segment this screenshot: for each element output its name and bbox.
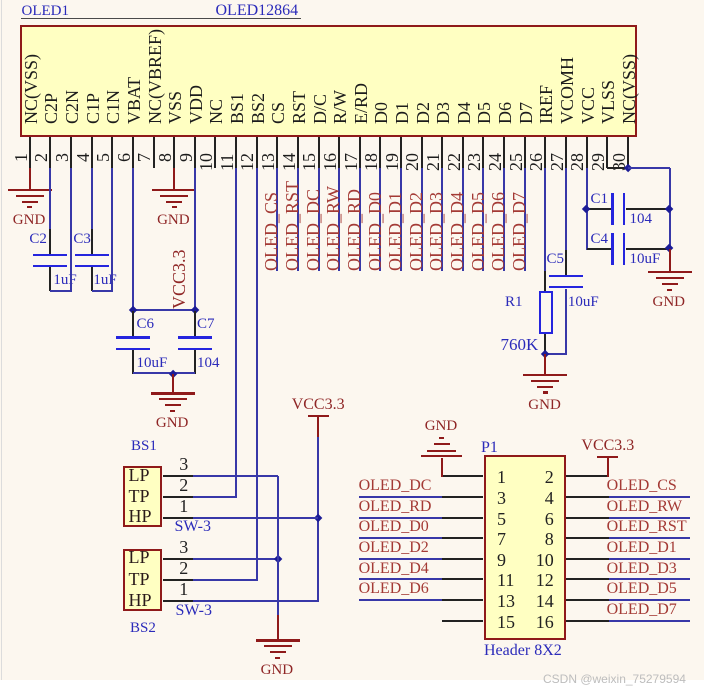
pin 23 name D5 [475,102,493,124]
wire pin6 to pin9 rail [133,309,195,311]
wire net OLED_RD [359,517,442,519]
pin 10 number [197,153,215,171]
pin 12 stub [256,137,258,168]
pin 5 name C1N [104,90,122,124]
P1 pin number 4 [528,491,554,505]
pin 14 number [280,153,298,171]
BS1 pin 1 lead [163,517,193,519]
capacitor C2 [49,229,51,254]
wire pin23 net stub [482,168,484,271]
P1 pin 1 lead [442,475,484,477]
pin 28 stub [586,137,588,168]
pin 13 name CS [269,102,287,124]
pin 11 name BS1 [228,93,246,124]
pin 1 stub [29,137,31,168]
pin 6 name VBAT [125,77,143,124]
pin 8 stub [173,137,175,168]
pin 30 name NC(VSS) [620,54,638,124]
P1 pin 6 lead [566,517,609,519]
wire net OLED_D5 [609,599,690,601]
wire pin1 to GND [29,168,31,190]
capacitor C6 [132,311,134,336]
pin 4 number [74,153,92,162]
net label OLED_D3 [427,192,445,271]
pin 3 number [53,153,71,162]
wire pin19 net stub [400,168,402,271]
P1 pin 5 lead [442,517,484,519]
pin 19 number [383,153,401,171]
pin 2 name C2P [42,93,60,124]
switch BS1 body [123,466,163,528]
P1 pin 14 lead [566,599,609,601]
wire P1 pin1 to GND [441,458,443,478]
wire net OLED_D3 [609,578,690,580]
P1 pin number 8 [528,532,554,546]
wire pin5 down [111,168,113,293]
pin 29 name VLSS [599,80,617,124]
resistor R1 [544,271,546,291]
capacitor C1 [587,208,612,210]
watermark [543,673,686,685]
pin 24 stub [503,137,505,168]
pin 16 number [321,153,339,171]
P1 pin number 13 [497,594,515,608]
part type OLED12864 [216,3,299,19]
P1 pin number 6 [528,512,554,526]
pin 11 stub [235,137,237,168]
net label OLED_CS [607,478,677,494]
net label OLED_DC [359,478,432,494]
P1 pin 15 lead [442,620,484,622]
pin 2 number [32,153,50,162]
pin 20 stub [421,137,423,168]
label C6 [137,317,155,332]
net label VCC3.3 (pin9) [170,249,188,309]
wire net OLED_D6 [359,599,442,601]
pin 18 stub [379,137,381,168]
pin 19 stub [400,137,402,168]
pin 4 name C1P [84,93,102,124]
pin 3 name C2N [63,90,81,124]
pin 3 stub [70,137,72,168]
pin 25 number [507,153,525,171]
junction C6/C7 ground [169,369,178,378]
net label OLED_D1 [607,540,677,556]
net label OLED_D3 [607,561,677,577]
pin label TP (BS1) [129,490,150,503]
pin 20 number [403,153,421,171]
wire BS1 pin1 to VCC rail [193,517,319,519]
P1 pin 10 lead [566,558,609,560]
wire pin22 net stub [462,168,464,271]
net label OLED_D6 [359,581,429,597]
right rail down [669,168,671,250]
pin 22 number [445,153,463,171]
junction pin6 rail [129,306,138,315]
net label OLED_D5 [469,192,487,271]
pin 27 number [548,153,566,171]
pin 10 name NC [207,99,225,124]
pin 8 name VSS [166,91,184,124]
pin 13 number [259,153,277,171]
net label OLED_D5 [607,581,677,597]
P1 pin number 7 [497,532,506,546]
pin 13 stub [276,137,278,168]
pin 6 stub [132,137,134,168]
net label OLED_D4 [448,192,466,271]
wire pin20 net stub [421,168,423,271]
P1 pin number 3 [497,491,506,505]
pin 12 number [238,153,256,171]
junction C1 right [665,205,674,214]
designator OLED1 [22,4,70,19]
net label OLED_RST [283,181,301,271]
P1 pin 7 lead [442,537,484,539]
pin 26 stub [544,137,546,168]
wire pin3 down [70,168,72,293]
ground GND (pin8) [152,189,196,191]
net label OLED_DC [304,189,322,271]
wire C4 right to GND [669,249,671,272]
P1 pin number 5 [497,512,506,526]
pin 29 number [589,153,607,171]
ground GND (C6/C7) [151,392,195,394]
BS2 pin number 1 [179,583,188,596]
pin label LP (BS1) [129,469,150,482]
pin 5 stub [111,137,113,168]
IC OLED1 body (OLED12864) [20,25,637,138]
pin 24 number [486,153,504,171]
designator underline [21,18,301,19]
pin 21 stub [441,137,443,168]
pin 30 stub [627,137,629,168]
pin 17 name E/RD [352,83,370,124]
net label OLED_RW [324,186,342,271]
pin label TP (BS2) [129,573,150,586]
pin 29 stub [606,137,608,168]
wire net OLED_DC [359,496,442,498]
P1 pin 4 lead [566,496,609,498]
wire net OLED_D7 [609,620,690,622]
pin 14 name RST [290,91,308,124]
wire pin17 net stub [359,168,361,271]
net label OLED_D0 [359,519,429,535]
P1 pin 3 lead [442,496,484,498]
pin 27 name VCOMH [558,57,576,124]
GND rail red stub [277,615,279,640]
ground GND (pin1) [8,189,52,191]
capacitor C3 [91,229,93,254]
label Header 8X2 [484,643,562,659]
ground GND (R1/C5) [523,374,567,376]
wire net OLED_D0 [359,537,442,539]
junction VCC/BS1 pin1 [314,513,323,522]
BS1 pin number 3 [179,458,188,471]
wire pin27 down [565,168,567,250]
P1 pin number 12 [528,573,554,587]
junction R1/C5 [541,350,550,359]
designator BS2 [130,621,156,636]
pin 28 name VCC [579,87,597,124]
value 104 (C7) [197,356,220,371]
pin 25 stub [524,137,526,168]
wire pin9 down (VCC3.3 net) [194,168,196,312]
pin 15 name D/C [311,94,329,124]
wire pin15 net stub [318,168,320,271]
junction pin9 rail [190,306,199,315]
wire P1 pin2 to VCC3.3 [607,458,609,477]
P1 pin number 15 [497,615,515,629]
P1 pin 16 lead [566,620,609,622]
P1 pin number 1 [497,470,506,484]
wire junction to GND [172,374,174,393]
pin 11 number [218,153,236,170]
P1 pin 9 lead [442,558,484,560]
ground GND (switches) [256,639,300,641]
VCC rail down [317,437,319,603]
header P1 body [484,455,567,640]
pin label LP (BS2) [129,551,150,564]
label C1 [591,192,609,207]
value 1uF (C3) [93,273,116,288]
pin 20 name D2 [414,102,432,124]
net label OLED_RST [607,519,687,535]
wire pin21 net stub [441,168,443,271]
wire BS2 pin3 to GND rail [193,558,278,560]
designator P1 [481,440,498,456]
pin 17 number [342,153,360,171]
net label OLED_D0 [366,192,384,271]
pin 26 number [527,153,545,171]
BS1 pin number 2 [179,479,188,492]
wire pin29 to pin30 [607,167,628,169]
pin 15 number [300,153,318,171]
ground GND (P1) (inverted) [439,437,444,439]
label C7 [197,317,215,332]
pin label HP (BS1) [129,510,152,523]
pin label HP (BS2) [129,594,152,607]
BS1 pin number 1 [179,500,188,513]
wire BS2 pin1 to VCC rail [193,600,319,602]
wire C5 to R1 bottom [545,353,566,355]
pin 9 stub [194,137,196,168]
designator BS1 [131,439,157,454]
P1 pin 11 lead [442,578,484,580]
pin 28 number [568,153,586,171]
BS2 pin 1 lead [163,600,193,602]
wire pin11 (BS1) down [235,168,237,498]
switch BS2 body [123,549,163,611]
label C5 [547,252,565,267]
pin 5 number [94,153,112,162]
pin 16 name R/W [331,90,349,124]
wire VCC3.3 stub [317,417,319,436]
value 1uF (C2) [53,273,76,288]
pin 15 stub [318,137,320,168]
P1 pin number 9 [497,553,506,567]
P1 pin 8 lead [566,537,609,539]
P1 pin 2 lead [566,475,609,477]
label C3 [73,232,91,247]
wire net OLED_D4 [359,578,442,580]
wire pin8 to GND [173,168,175,190]
wire net OLED_RW [609,517,690,519]
wire net OLED_D1 [609,558,690,560]
pin 18 name D0 [372,102,390,124]
wire pin4 down [91,168,93,229]
label R1 [505,295,523,310]
BS1 pin 2 lead [163,496,193,498]
wire net OLED_CS [609,496,690,498]
pin 1 number [12,153,30,162]
wire pin24 net stub [503,168,505,271]
wire pin25 net stub [524,168,526,271]
BS1 pin 3 lead [163,475,193,477]
pin 8 number [156,153,174,162]
value 760K [501,336,539,353]
pin 23 number [465,153,483,171]
pin 17 stub [359,137,361,168]
label C2 [29,232,47,247]
pin 18 number [362,153,380,171]
net label OLED_D4 [359,561,429,577]
P1 pin number 11 [497,573,514,587]
junction C1 left [582,205,591,214]
net label OLED_CS [262,192,280,271]
value 104 (C1) [630,212,653,227]
pin 12 name BS2 [249,93,267,124]
net label OLED_RW [607,499,683,515]
pin 16 stub [338,137,340,168]
label C4 [591,232,609,247]
pin 22 name D4 [455,102,473,124]
wire C5 bottom down [565,289,567,356]
net label OLED_RD [359,499,432,515]
pin 19 name D1 [393,102,411,124]
pin 21 number [424,153,442,171]
P1 pin number 10 [528,553,554,567]
net label OLED_D6 [489,192,507,271]
ground GND (C1/C4) [648,271,692,273]
wire net OLED_D2 [359,558,442,560]
wire BS1 pin3 to GND rail [193,475,278,477]
net label OLED_D7 [510,192,528,271]
wire pin2 down [49,168,51,229]
pin 1 name NC(VSS) [22,54,40,124]
net label OLED_D2 [407,192,425,271]
P1 pin number 16 [528,615,554,629]
pin 9 name VDD [187,85,205,124]
label SW-3 (BS1) [175,519,211,535]
value 10uF (C4) [630,252,661,267]
wire net OLED_RST [609,537,690,539]
value 10uF (C6) [137,356,168,371]
capacitor C4 [587,248,612,250]
wire pin16 net stub [338,168,340,271]
wire BS2 pin2 to pin12 [193,579,257,581]
net label OLED_D2 [359,540,429,556]
pin 14 stub [297,137,299,168]
P1 pin number 2 [528,470,554,484]
wire pin13 net stub [276,168,278,271]
junction pin30 [623,163,632,172]
net label OLED_D1 [386,192,404,271]
junction C4 right [665,244,674,253]
P1 pin 12 lead [566,578,609,580]
wire BS1 pin2 to pin11 [193,496,237,498]
pin 21 name D3 [434,102,452,124]
net label OLED_RD [345,189,363,271]
wire C3 bottom to pin5 [92,290,114,292]
pin 7 name NC(VBREF) [146,29,164,124]
P1 pin 13 lead [442,599,484,601]
pin 23 stub [482,137,484,168]
pin 25 name D7 [517,102,535,124]
wire pin28 (VCC) down [586,168,588,250]
pin 2 stub [49,137,51,168]
BS2 pin 3 lead [163,558,193,560]
GND rail (switches) [277,476,279,615]
wire pin12 (BS2) down [256,168,258,581]
wire pin6 down [132,168,134,312]
label SW-3 (BS2) [176,603,212,619]
junction BS2 pin3 / GND rail [273,554,282,563]
pin 7 stub [153,137,155,168]
power VCC3.3 (switch rail) [308,415,329,417]
pin 26 name IREF [537,85,555,124]
wire pin14 net stub [297,168,299,271]
capacitor C5 [565,250,567,275]
wire pin18 net stub [379,168,381,271]
wire pin30 to right rail [628,167,671,169]
wire C6/C7 bottoms [133,372,195,374]
BS2 pin number 2 [179,562,188,575]
pin 27 stub [565,137,567,168]
pin 24 name D6 [496,102,514,124]
wire C2 bottom to pin3 [50,290,72,292]
P1 pin number 14 [528,594,554,608]
pin 10 stub [214,137,216,168]
BS2 pin number 3 [179,541,188,554]
pin 6 number [115,153,133,162]
power VCC3.3 (P1) [597,456,618,458]
wire junction to GND [544,354,546,375]
capacitor C7 [194,311,196,336]
pin 4 stub [91,137,93,168]
pin 22 stub [462,137,464,168]
pin 30 number [610,153,628,171]
pin 9 number [177,153,195,162]
pin 7 number [135,153,153,162]
wire pin26 down [544,168,546,271]
net label OLED_D7 [607,602,677,618]
value 10uF (C5) [568,295,599,310]
BS2 pin 2 lead [163,579,193,581]
